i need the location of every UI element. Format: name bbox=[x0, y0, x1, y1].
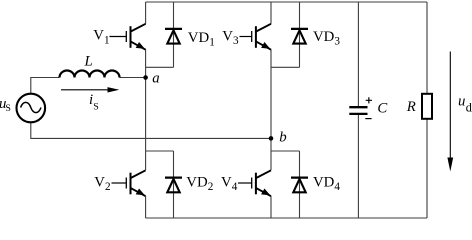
svg-text:C: C bbox=[377, 101, 387, 117]
transistor V3 (IGBT) bbox=[240, 24, 272, 50]
wire bottom bus bbox=[146, 217, 427, 219]
svg-text:VD: VD bbox=[313, 29, 335, 45]
node b junction dot bbox=[269, 136, 274, 141]
svg-text:VD: VD bbox=[188, 30, 210, 46]
wire left leg middle (V1 emitter to V2 collector through node a) bbox=[145, 50, 147, 171]
wire right leg middle (V3 emitter to V4 collector through node b) bbox=[270, 50, 272, 171]
label ud bbox=[458, 94, 472, 115]
label V2 bbox=[94, 174, 110, 193]
capacitor minus sign bbox=[365, 118, 371, 120]
svg-text:V: V bbox=[94, 174, 105, 190]
wire left leg lower (V2 emitter to bottom bus) bbox=[145, 196, 147, 218]
diode VD4 bbox=[291, 178, 308, 193]
transistor V1 (IGBT) bbox=[110, 24, 146, 50]
wire inductor to node a bbox=[120, 77, 146, 79]
AC source u_S circle bbox=[17, 94, 46, 123]
label V1 bbox=[93, 28, 109, 47]
label V4 bbox=[221, 174, 238, 193]
wire right leg upper (V3 collector stub) bbox=[270, 2, 272, 24]
label VD1 bbox=[188, 30, 215, 49]
capacitor plus sign bbox=[366, 97, 372, 103]
wire VD4 column bbox=[299, 151, 301, 218]
svg-text:3: 3 bbox=[334, 36, 340, 48]
svg-text:d: d bbox=[466, 100, 472, 114]
wire right bus lower (from resistor) bbox=[426, 119, 428, 218]
svg-text:L: L bbox=[84, 53, 93, 69]
inductor L bbox=[60, 71, 120, 78]
wire jog VD2 cathode to left leg bbox=[146, 150, 174, 152]
resistor R box bbox=[422, 94, 432, 119]
label iS bbox=[89, 92, 99, 112]
wire jog VD3 anode to right leg bbox=[271, 66, 300, 68]
label VD2 bbox=[186, 175, 213, 194]
svg-text:VD: VD bbox=[186, 175, 208, 191]
svg-text:3: 3 bbox=[233, 35, 239, 47]
label uS bbox=[0, 96, 11, 114]
wire VD2 column bbox=[173, 151, 175, 218]
label VD4 bbox=[313, 175, 340, 194]
arrow u_d bbox=[449, 52, 451, 160]
arrow i_S bbox=[61, 89, 109, 91]
svg-text:b: b bbox=[279, 129, 286, 145]
wire jog VD4 cathode to right leg bbox=[271, 150, 300, 152]
svg-text:2: 2 bbox=[105, 181, 111, 193]
diode VD1 bbox=[165, 29, 182, 44]
wire right bus upper (to resistor) bbox=[426, 2, 428, 94]
wire left leg upper (V1 collector stub) bbox=[145, 2, 147, 24]
svg-text:a: a bbox=[152, 70, 159, 86]
transistor V4 (IGBT) bbox=[238, 170, 271, 196]
transistor V2 (IGBT) bbox=[112, 170, 146, 196]
node a junction dot bbox=[143, 75, 148, 80]
svg-text:4: 4 bbox=[232, 181, 238, 193]
AC source sine symbol bbox=[21, 102, 41, 112]
svg-text:1: 1 bbox=[104, 34, 110, 46]
svg-text:S: S bbox=[5, 103, 10, 114]
svg-text:V: V bbox=[222, 28, 233, 44]
svg-text:2: 2 bbox=[208, 181, 214, 193]
diode VD2 bbox=[165, 178, 182, 193]
svg-text:u: u bbox=[458, 94, 465, 110]
wire VD3 column bbox=[299, 2, 301, 67]
svg-text:VD: VD bbox=[313, 175, 335, 191]
capacitor C plates bbox=[349, 106, 367, 108]
svg-text:1: 1 bbox=[209, 37, 215, 49]
wire source bottom to node b bbox=[31, 123, 271, 139]
wire right leg lower (V4 emitter to bottom bus) bbox=[270, 196, 272, 218]
svg-text:V: V bbox=[93, 28, 104, 44]
svg-text:V: V bbox=[221, 174, 232, 190]
svg-text:R: R bbox=[406, 99, 416, 115]
wire jog VD1 anode to left leg bbox=[146, 66, 174, 68]
wire VD1 column bbox=[173, 2, 175, 67]
label V3 bbox=[222, 28, 239, 47]
wire top bus bbox=[146, 1, 427, 3]
wire capacitor column lower bbox=[357, 115, 359, 219]
svg-text:S: S bbox=[93, 101, 99, 112]
diode VD3 bbox=[291, 29, 308, 44]
wire capacitor column upper bbox=[357, 2, 359, 106]
label VD3 bbox=[313, 29, 340, 48]
svg-text:4: 4 bbox=[334, 181, 340, 193]
wire source top to inductor bbox=[31, 78, 60, 94]
